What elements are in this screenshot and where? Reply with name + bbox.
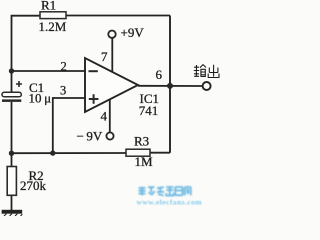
wire pin7 up to +9V terminal [111, 38, 113, 72]
junction dot rail/pin3 [50, 150, 55, 155]
wire R2 bottom lead to ground [11, 195, 13, 210]
terminal output circle [203, 82, 211, 90]
watermark line 1 (blurry blue CJK glyphs) [139, 187, 191, 196]
svg-text:7: 7 [101, 49, 108, 64]
wire top-left L from R1 left lead to left rail down to node A [12, 16, 41, 71]
wire feedback vertical from top-right corner down to R3 right lead [169, 16, 171, 153]
wire pin3 from rail up and right to op-amp non-inverting input [53, 98, 85, 153]
svg-text:1M: 1M [135, 154, 154, 169]
label shuchu (output) hand-drawn glyphs [194, 65, 219, 78]
svg-text:1.2M: 1.2M [39, 19, 67, 34]
svg-text:6: 6 [156, 67, 163, 82]
wire pin4 down to -9V terminal [109, 100, 111, 133]
svg-text:www.elecfans.com: www.elecfans.com [137, 198, 203, 207]
svg-text:R3: R3 [134, 134, 149, 149]
svg-text:− 9V: − 9V [77, 129, 103, 144]
wire R1 right lead to top-right corner [66, 15, 170, 17]
op-amp non-inverting (+) mark [89, 94, 99, 104]
terminal -9V circle [106, 132, 113, 139]
svg-text:270k: 270k [20, 178, 47, 193]
junction dot output node [167, 83, 173, 89]
svg-text:2: 2 [61, 59, 67, 73]
svg-text:741: 741 [139, 103, 159, 118]
wire C1 bottom lead down to ground rail [11, 102, 13, 153]
wire bottom ground rail [12, 152, 127, 154]
capacitor C1 (electrolytic, + top plate) [2, 81, 22, 102]
wire pin2 from node A to op-amp inverting input [12, 70, 86, 72]
svg-text:4: 4 [101, 109, 108, 124]
node A junction dot [9, 68, 14, 73]
wire node A down to capacitor C1 top plate [11, 71, 13, 93]
junction dot rail/R2 [9, 151, 14, 156]
op-amp U1 triangle [85, 58, 138, 112]
svg-text:R1: R1 [41, 0, 56, 13]
svg-text:+9V: +9V [121, 25, 145, 40]
resistor R1 [40, 12, 66, 19]
resistor R2 [7, 167, 16, 196]
wire R3 right lead up join [150, 152, 170, 154]
ground [2, 210, 23, 216]
terminal +9V circle [108, 31, 115, 38]
op-amp inverting (-) mark [89, 70, 98, 72]
wire rail down to R2 [11, 153, 13, 166]
svg-text:3: 3 [60, 84, 66, 98]
svg-text:10 μ: 10 μ [29, 91, 52, 106]
resistor R3 [126, 149, 150, 156]
wire output from op-amp apex to output terminal [138, 85, 202, 87]
